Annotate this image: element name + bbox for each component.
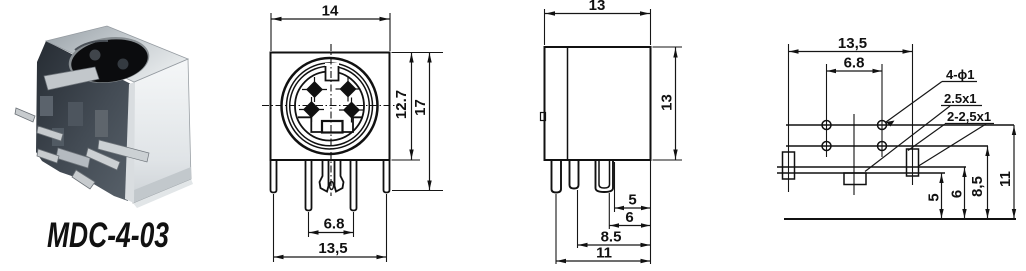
side view: dim 11	[556, 161, 651, 264]
front view: dim 13.5	[274, 194, 387, 262]
side view: dim 8.5	[578, 190, 651, 248]
front view: pin 2 diamond	[336, 77, 361, 102]
svg-text:11: 11	[596, 245, 612, 262]
front view: pin 4 diamond	[339, 98, 364, 123]
svg-text:17: 17	[412, 99, 429, 116]
front view: dim 6.8	[309, 212, 354, 237]
side view: left tab	[541, 113, 546, 121]
photo: connector front-right metal face	[125, 59, 191, 203]
svg-text:4-ϕ1: 4-ϕ1	[946, 67, 975, 82]
svg-text:6.8: 6.8	[324, 216, 345, 233]
footprint: band bottom line	[777, 172, 945, 174]
svg-text:2.5x1: 2.5x1	[944, 91, 977, 106]
footprint: dim 8,5	[969, 146, 990, 219]
svg-text:2-2,5x1: 2-2,5x1	[947, 109, 991, 124]
footprint: leader 2.5x1	[865, 91, 982, 172]
svg-text:6: 6	[625, 209, 633, 226]
svg-text:6: 6	[948, 190, 965, 198]
front view: left shield leg	[271, 160, 277, 193]
side view: dim 6	[609, 193, 650, 229]
svg-text:13,5: 13,5	[838, 35, 867, 52]
photo: connector dark left face	[36, 41, 193, 208]
footprint: bottom reference line	[784, 218, 1016, 220]
footprint: dim 5	[925, 173, 943, 219]
footprint: right slot	[907, 149, 919, 176]
footprint: hole B2	[878, 142, 887, 151]
svg-text:5: 5	[628, 192, 636, 209]
svg-text:14: 14	[322, 3, 339, 20]
footprint: dim 6.8	[827, 55, 883, 158]
footprint: hole A2	[878, 121, 887, 130]
side view: dim 5	[615, 162, 651, 212]
photo: socket opening black oval	[66, 32, 152, 88]
footprint: leader 2-2,5x1	[908, 109, 994, 166]
footprint: hole A1	[822, 121, 831, 130]
svg-text:13,5: 13,5	[318, 240, 347, 257]
side view: shield leg folded	[596, 160, 614, 192]
footprint: row 2 line	[786, 145, 988, 147]
front view: pin 1 diamond	[302, 77, 327, 102]
front view: shield rings	[282, 58, 378, 154]
front view: right contact leg	[351, 160, 357, 211]
footprint: dim 11	[997, 125, 1016, 219]
part number label MDC-4-03	[47, 216, 169, 255]
front view: dim 17	[392, 53, 443, 191]
footprint: centerline	[853, 114, 855, 195]
svg-text:5: 5	[925, 193, 942, 201]
footprint: dim 13,5	[789, 35, 913, 192]
svg-text:8,5: 8,5	[969, 176, 986, 197]
front view: insert circle	[295, 72, 364, 141]
side view: body	[545, 47, 651, 160]
footprint: row 1 line	[786, 124, 1014, 126]
svg-text:12.7: 12.7	[393, 90, 410, 119]
footprint: hole B1	[822, 142, 831, 151]
front view: insert chin	[298, 117, 363, 132]
front view: body square	[271, 53, 390, 161]
footprint: left slot	[783, 152, 795, 179]
photo: connector pins	[15, 108, 120, 189]
photo: connector body top face	[46, 26, 188, 82]
side view: dim 13 right	[653, 47, 683, 160]
side view: dim 13 top	[545, 0, 651, 45]
side view: pin B	[570, 160, 579, 189]
front view: pin 3 diamond	[299, 97, 324, 122]
footprint: bottom slot	[844, 173, 866, 185]
svg-text:MDC-4-03: MDC-4-03	[47, 216, 169, 255]
footprint: leader 4-phi1	[886, 67, 977, 127]
front view: centerlines	[262, 44, 399, 196]
front view: dim 12.7	[392, 53, 444, 161]
footprint: dim 6	[948, 167, 966, 219]
svg-text:13: 13	[589, 0, 606, 14]
svg-text:11: 11	[997, 171, 1014, 187]
front view: dim 14	[271, 3, 390, 52]
photo: metal tabs on dark face	[40, 67, 149, 168]
svg-text:6.8: 6.8	[844, 55, 865, 72]
front view: key notch	[325, 63, 339, 81]
svg-text:13: 13	[658, 94, 675, 111]
svg-text:8.5: 8.5	[601, 229, 622, 246]
front view: left contact leg	[306, 160, 312, 211]
front view: right shield leg	[384, 160, 390, 193]
front view: center snap post	[320, 160, 344, 192]
footprint: band top line	[777, 166, 966, 168]
side view: pin A	[552, 160, 562, 193]
